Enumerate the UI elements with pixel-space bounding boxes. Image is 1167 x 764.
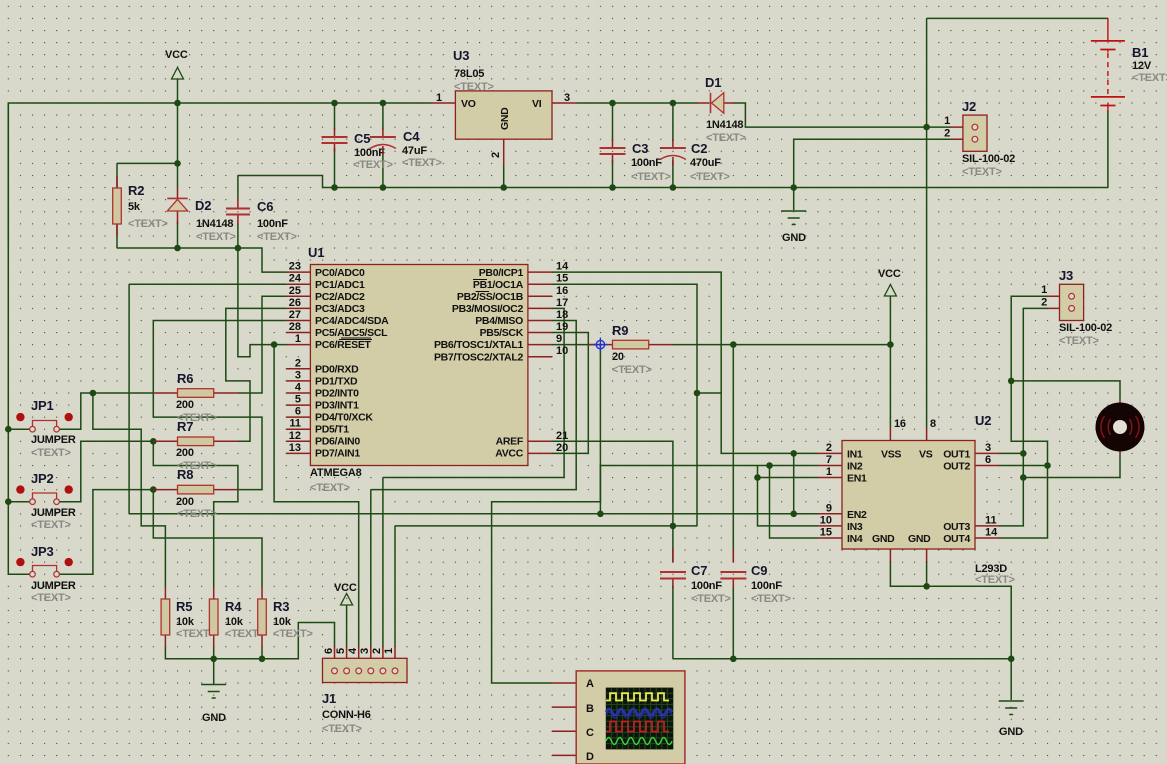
svg-text:PD3/INT1: PD3/INT1 [315,400,359,412]
node JP1 rail [5,426,12,433]
U3 78L05 regulator [431,48,576,165]
wire EN1 dot down to IN3 [758,478,818,526]
wire pin15 dot right branch to pin14 column [697,392,721,394]
resistor R6 200 [153,371,238,424]
svg-text:5k: 5k [128,201,141,213]
svg-text:20: 20 [612,351,624,363]
svg-text:C3: C3 [632,141,648,156]
wire R9 right long row y=344.6 with branches [673,344,891,346]
svg-text:PC1/ADC1: PC1/ADC1 [315,279,365,291]
wire JP2 left pin to rail [8,501,30,503]
node OUT2 on column [1044,462,1051,469]
node C5 top [331,100,338,107]
node U2 gnd pins joint [923,583,930,590]
connector J2 SIL-100-02 [944,99,1015,178]
svg-text:15: 15 [556,273,568,285]
capacitor C5 100nF [322,128,393,171]
wire AREF to C7 top column [552,441,673,526]
node VCC / VSS column on R9 row [887,341,894,348]
wire ground rail y=187.5 under U3 [335,187,1108,189]
wire D1 cathode to J2 pin1 jog [733,103,926,127]
svg-text:VCC: VCC [165,49,188,61]
svg-text:14: 14 [556,261,569,273]
U2 pin numbers right [985,442,998,539]
svg-text:C5: C5 [354,131,370,146]
svg-text:C: C [586,727,594,739]
svg-text:AVCC: AVCC [495,448,523,460]
svg-text:D: D [586,751,594,763]
svg-text:2: 2 [826,442,832,454]
node J3 motor top [1008,378,1015,385]
node GND stub on rail [790,184,797,191]
svg-text:1: 1 [826,466,832,478]
wire J3 net row to motor top [1011,381,1120,399]
U1 ADC5 underline [341,337,371,339]
node motor bottom tee [1020,474,1027,481]
svg-text:A: A [586,678,594,690]
resistor R5 10k vertical [161,587,216,647]
wire VS column x=926.6 from battery rail down to U2 pin8 [926,18,928,428]
U2 left pin stubs [818,453,842,538]
svg-text:26: 26 [289,297,301,309]
node U3 GND pin on rail [500,184,507,191]
U2 top pin stubs [890,428,926,441]
svg-text:100nF: 100nF [631,157,662,169]
svg-text:<TEXT>: <TEXT> [128,218,168,230]
svg-text:1: 1 [383,648,395,654]
power symbol VCC at J1 [334,582,357,605]
svg-text:AREF: AREF [496,436,524,448]
svg-text:<TEXT>: <TEXT> [196,231,236,243]
wire J1 pin2 riser from MOSI row [382,478,384,648]
node C6 bottom rail [235,245,242,252]
svg-text:<TEXT>: <TEXT> [706,132,746,144]
node gnd rail / U2 gnd column [1008,656,1015,663]
svg-text:PD2/INT0: PD2/INT0 [315,388,359,400]
J1 pin numbers rotated [323,647,395,654]
wire pin19 SCK to AVCC [552,333,588,454]
U3 pin3 stub [552,102,576,104]
node pin1 RESET tie [271,341,278,348]
wire C9 column from R9 row dot down to C9 top [732,345,734,562]
node JP2 rail [5,498,12,505]
svg-text:IN3: IN3 [847,521,863,533]
svg-text:470uF: 470uF [690,157,721,169]
svg-text:EN1: EN1 [847,473,867,485]
U1 RESET overline [339,339,372,341]
wire pin1 RESET to stub [274,344,286,346]
node C3 top [609,100,616,107]
svg-text:<TEXT>: <TEXT> [353,159,393,171]
svg-text:D2: D2 [195,198,211,213]
svg-text:25: 25 [289,285,301,297]
wire C row from EN2 row to IN2 [600,466,818,514]
svg-text:28: 28 [289,321,301,333]
node C3 bottom [609,184,616,191]
svg-text:200: 200 [176,447,194,459]
svg-text:R9: R9 [612,323,628,338]
node C2 bottom [670,184,677,191]
svg-text:<TEXT>: <TEXT> [975,574,1015,586]
wire R7 left dot down jog to R4 top [153,441,238,587]
svg-text:7: 7 [826,454,832,466]
svg-text:J3: J3 [1059,268,1073,283]
svg-text:2: 2 [1041,297,1047,309]
wire OUT2 to column x=1047.5 [999,465,1047,467]
U3 pin1 stub [431,102,455,104]
node C5 bottom [331,184,338,191]
wire battery top rail y=18.4 [927,17,1108,19]
svg-text:<TEXT>: <TEXT> [612,364,652,376]
wire JP1 left pin to rail [8,428,30,430]
svg-text:PB7/TOSC2/XTAL2: PB7/TOSC2/XTAL2 [434,352,524,364]
svg-text:PB2/SS/OC1B: PB2/SS/OC1B [457,291,524,303]
svg-text:C9: C9 [751,563,767,578]
svg-text:OUT3: OUT3 [943,521,970,533]
svg-text:<TEXT>: <TEXT> [1059,335,1099,347]
wire C6 bottom lead [237,224,239,248]
node C4 bottom [380,184,387,191]
svg-text:200: 200 [176,496,194,508]
svg-text:<TEXT>: <TEXT> [273,628,313,640]
oscilloscope trace D green sine [606,738,672,745]
ground symbol bottom left [201,685,226,725]
U1 left pin stubs [286,272,310,453]
wire J3 pin1 to column x=1011.2 [1011,296,1047,381]
capacitor C6 100nF [226,198,297,243]
svg-text:VO: VO [461,98,476,110]
wire EN2 long row y=513.8 to U2 EN2 [129,513,818,515]
wire C3 bottom lead [612,160,614,188]
resistor R4 10k vertical [209,587,264,647]
svg-text:5: 5 [295,394,301,406]
wire J2 pin1 stub green [927,126,951,128]
svg-text:10k: 10k [273,616,292,628]
svg-text:R4: R4 [225,599,242,614]
svg-text:VS: VS [919,449,933,461]
svg-text:3: 3 [985,442,991,454]
svg-text:GND: GND [499,107,511,130]
wire pin26 to R7 right [226,308,286,441]
node C9 bottom rail [730,656,737,663]
connector J1 CONN-H6 [322,646,407,735]
svg-text:100nF: 100nF [691,580,722,592]
node R6 left [90,390,97,397]
U1 ATMEGA8 microcontroller [286,245,569,494]
svg-text:21: 21 [556,430,568,442]
svg-text:JUMPER: JUMPER [31,580,76,592]
resistor R9 20 [588,323,673,376]
node C4 top [380,100,387,107]
svg-text:JP1: JP1 [31,398,54,413]
wire J2 pin2 to ground rail [794,139,951,187]
U3 pin2 stub [503,139,505,165]
svg-text:78L05: 78L05 [454,68,484,80]
wire J1 pin3 riser from MISO row [370,490,372,647]
node IN1 riser on EN2 row [790,511,797,518]
svg-text:GND: GND [202,712,226,724]
wire C4 top lead [382,103,384,130]
capacitor C7 100nF [660,548,731,605]
svg-text:13: 13 [289,442,301,454]
svg-text:100nF: 100nF [751,580,782,592]
svg-text:<TEXT>: <TEXT> [454,81,494,93]
svg-text:CONN-H6: CONN-H6 [322,709,371,721]
resistor R3 10k vertical [258,587,313,647]
svg-text:11: 11 [289,418,301,430]
svg-text:C4: C4 [403,129,420,144]
wire GND symbol stub below rail x=213.7 [213,659,215,685]
capacitor C2 470uF polarized [660,139,730,183]
wire VCC arrow above U2 stem to VSS [889,296,891,428]
U1 right pin stubs [528,272,552,453]
svg-text:<TEXT>: <TEXT> [177,508,217,520]
connector J3 SIL-100-02 [1041,268,1112,347]
wire C9 bottom lead [732,586,734,659]
svg-text:<TEXT>: <TEXT> [690,171,730,183]
svg-text:6: 6 [323,648,335,654]
ground symbol below D1/C2 [781,211,806,244]
wire J1 pin1 riser from H row [394,526,396,647]
wire U2 GND2 stub [926,561,928,586]
node VCC rail / VCC arrow [174,100,181,107]
jumper JP2 [16,471,76,531]
svg-text:PD5/T1: PD5/T1 [315,424,349,436]
wire pin25 to R6 right [238,296,286,393]
svg-text:2: 2 [944,128,950,140]
svg-text:6: 6 [985,454,991,466]
svg-text:EN2: EN2 [847,509,867,521]
svg-text:16: 16 [556,285,568,297]
wire C7 bottom lead to gnd rail [672,586,674,659]
svg-text:ATMEGA8: ATMEGA8 [310,467,362,479]
svg-text:15: 15 [820,527,832,539]
svg-text:JP2: JP2 [31,471,54,486]
wire JP3 right pin riser to R8 left dot [59,490,153,575]
wire motor bottom lead row [1023,455,1120,478]
wire pin24 PC1 horizontal y=284.2 [129,283,286,285]
wire left rail x=8.3 down to JP3 [8,103,30,574]
node C row to EN2 row [597,511,604,518]
svg-text:4: 4 [347,647,359,654]
svg-text:PD0/RXD: PD0/RXD [315,364,359,376]
wire IN1 dot down to EN2 row [793,453,795,513]
svg-text:17: 17 [556,297,568,309]
wire J3 net down jog to OUT4 [999,381,1047,538]
svg-text:PB3/MOSI/OC2: PB3/MOSI/OC2 [452,303,524,315]
svg-text:<TEXT>: <TEXT> [1132,72,1167,84]
resistor R8 200 [153,467,238,520]
wire C2 top lead [672,103,674,141]
oscilloscope trace C red square [606,722,669,732]
svg-text:PC2/ADC2: PC2/ADC2 [315,291,365,303]
node R2 top / D2 [174,160,181,167]
wire pin17 MOSI to J1.2 row [383,308,564,477]
svg-text:PC5/ADC5/SCL: PC5/ADC5/SCL [315,327,388,339]
svg-text:10: 10 [556,345,568,357]
wire D2 column x=177.5 [177,163,179,188]
node marker crosshair on R9 left [593,338,607,352]
U2 L293D driver [818,413,1015,586]
node EN1 tee [754,474,761,481]
svg-text:R7: R7 [177,419,193,434]
svg-text:OUT1: OUT1 [943,449,970,461]
svg-text:J2: J2 [962,99,976,114]
svg-text:PC3/ADC3: PC3/ADC3 [315,303,365,315]
jumper JP1 [16,398,76,459]
svg-text:2: 2 [490,152,502,158]
capacitor C9 100nF [720,548,790,605]
svg-text:PC0/ADC0: PC0/ADC0 [315,267,365,279]
U1 PB1 overline [473,279,487,281]
wire VCC top rail y=103 from left rail to U3 pin1 [8,103,431,247]
svg-text:PD6/AIN0: PD6/AIN0 [315,436,360,448]
svg-text:9: 9 [826,502,832,514]
svg-text:27: 27 [289,309,301,321]
svg-text:4: 4 [295,382,302,394]
svg-text:VCC: VCC [878,268,901,280]
svg-text:1: 1 [295,333,301,345]
node R4 bottom rail [210,656,217,663]
svg-text:1N4148: 1N4148 [706,119,743,131]
wire R4 bottom lead [213,647,215,659]
node AREF C7 H row [670,523,677,530]
svg-text:U1: U1 [308,245,324,260]
svg-text:<TEXT>: <TEXT> [631,171,671,183]
oscilloscope [552,671,685,764]
U1 right pin numbers [556,261,569,454]
node IN1 tee [790,450,797,457]
svg-text:<TEXT>: <TEXT> [322,723,362,735]
svg-text:PC4/ADC4/SDA: PC4/ADC4/SDA [315,315,389,327]
svg-text:PB6/TOSC1/XTAL1: PB6/TOSC1/XTAL1 [434,339,524,351]
battery B1 12V [1091,18,1167,112]
svg-text:3: 3 [359,648,371,654]
svg-text:<TEXT>: <TEXT> [962,166,1002,178]
svg-text:100nF: 100nF [257,218,288,230]
svg-text:JUMPER: JUMPER [31,434,76,446]
wire pin9 XTAL1 stub to crosshair [552,344,600,346]
svg-text:200: 200 [176,399,194,411]
U1 SS overline [476,291,490,293]
svg-text:<TEXT>: <TEXT> [691,593,731,605]
wire J3 pin2 to OUT1 dot [999,308,1047,453]
svg-text:1: 1 [436,92,442,104]
svg-text:10k: 10k [176,616,195,628]
oscilloscope trace A yellow square [606,693,669,700]
wire pin15 OC1A over to riser x=697 [552,284,697,526]
wire R8 left dot down jog to R3 top [153,490,262,587]
diode D1 1N4148 horizontal [697,75,746,144]
svg-text:10: 10 [820,514,832,526]
svg-text:OUT4: OUT4 [943,533,970,545]
node R7 left [150,438,157,445]
svg-text:C7: C7 [691,563,707,578]
wire node rail y=248 R2/D2/C6 to pin23 riser [117,248,286,272]
wire VCC arrow stem to J1 pin5 [346,605,348,647]
svg-text:R3: R3 [273,599,289,614]
svg-text:IN2: IN2 [847,461,863,473]
svg-text:1N4148: 1N4148 [196,218,233,230]
node R3 bottom rail [259,656,266,663]
svg-text:B: B [586,703,594,715]
svg-text:<TEXT>: <TEXT> [402,157,442,169]
svg-text:PD4/T0/XCK: PD4/T0/XCK [315,412,373,424]
wire R5 R4 R3 bottom ground rail y=658.8 [165,623,334,659]
svg-text:PB4/MISO: PB4/MISO [475,315,523,327]
capacitor C4 47uF polarized [370,128,442,169]
node IN2 row tee [766,462,773,469]
svg-text:C2: C2 [691,141,707,156]
wire EN1 row from C row [758,466,818,478]
wire C4 bottom lead [382,150,384,188]
wire U2 GND pins row y=586.3 [890,561,1011,659]
svg-text:VSS: VSS [881,449,901,461]
wire U3 pin2 GND stub lower [503,165,505,188]
svg-text:C6: C6 [257,199,273,214]
svg-text:PB1/OC1A: PB1/OC1A [473,279,524,291]
svg-text:16: 16 [894,418,906,430]
node R9 right / C9 column [730,341,737,348]
svg-text:IN4: IN4 [847,533,863,545]
wire R3 bottom lead [261,647,263,659]
ground symbol bottom right [999,701,1024,738]
svg-text:SIL-100-02: SIL-100-02 [962,153,1015,165]
wire pin14 ICP1 to IN1 [552,272,818,453]
svg-text:PB0/ICP1: PB0/ICP1 [479,267,524,279]
svg-text:6: 6 [295,406,301,418]
svg-text:5: 5 [335,648,347,654]
svg-text:1: 1 [944,115,950,127]
U1 left pin numbers [289,261,302,454]
wire JP1 right pin riser to R6 left dot [59,393,93,429]
U2 right pin stubs [975,453,999,538]
svg-text:2: 2 [295,357,301,369]
wire OUT4 stub green [998,537,1000,539]
capacitor C3 100nF [600,139,671,183]
wire pin18 MISO to J1.3 row [371,321,576,490]
wire C5 bottom lead [334,148,336,188]
svg-text:R8: R8 [177,467,193,482]
wire crosshair column down to F right segment to osc A [492,345,601,683]
wire C6 top to C5/C4 bottom rail [238,176,335,188]
svg-text:PC6/RESET: PC6/RESET [315,339,372,351]
svg-text:R5: R5 [176,599,192,614]
resistor R7 200 [153,419,238,472]
svg-text:<TEXT>: <TEXT> [257,231,297,243]
wire C6 top lead [237,176,239,199]
svg-text:B1: B1 [1132,45,1148,60]
svg-text:U2: U2 [975,413,991,428]
svg-text:IN1: IN1 [847,449,863,461]
power symbol VCC above U2 [878,268,901,296]
jumper JP3 [16,544,76,604]
svg-text:JP3: JP3 [31,544,54,559]
svg-text:1: 1 [1041,284,1047,296]
node OUT1 tee [1020,450,1027,457]
U2 pin numbers left [820,442,832,539]
svg-text:<TEXT>: <TEXT> [31,519,71,531]
resistor R2 6k vertical [113,176,168,236]
node D2 bottom rail [174,245,181,252]
power symbol VCC top left [165,49,188,79]
wire JP2 right pin riser to R7 left dot [59,441,153,501]
wire pin27 to R8 right riser [153,321,286,490]
svg-text:<TEXT>: <TEXT> [31,592,71,604]
svg-text:U3: U3 [453,48,469,63]
wire GND symbol stub below rail at x=793.7 [793,188,795,211]
svg-text:20: 20 [556,442,568,454]
